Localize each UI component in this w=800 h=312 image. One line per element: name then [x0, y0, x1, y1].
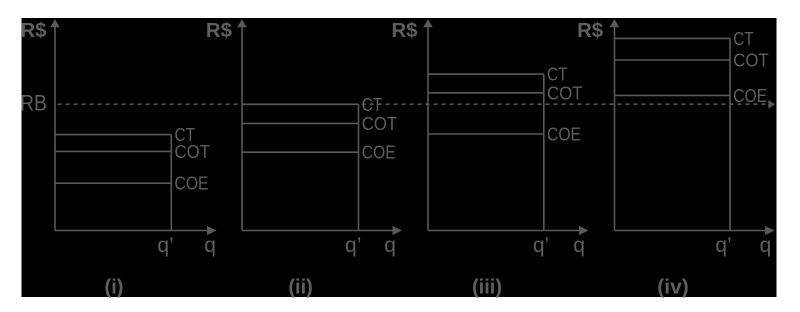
svg-text:(i): (i) — [105, 277, 124, 299]
svg-text:CT: CT — [362, 95, 383, 115]
svg-text:RB: RB — [20, 91, 47, 116]
svg-text:COE: COE — [547, 125, 581, 145]
svg-text:q’: q’ — [157, 234, 173, 257]
svg-text:q’: q’ — [715, 234, 731, 257]
svg-text:(iv): (iv) — [657, 277, 689, 299]
svg-text:COT: COT — [362, 114, 398, 134]
svg-text:q: q — [573, 234, 585, 257]
svg-text:R$: R$ — [577, 20, 603, 42]
svg-text:CT: CT — [733, 29, 754, 49]
svg-text:R$: R$ — [392, 20, 418, 42]
svg-text:COT: COT — [547, 83, 583, 103]
svg-text:(iii): (iii) — [472, 277, 502, 299]
svg-text:q’: q’ — [345, 234, 361, 257]
svg-text:COE: COE — [733, 86, 767, 106]
svg-text:COE: COE — [362, 143, 396, 163]
svg-text:COE: COE — [175, 174, 209, 194]
svg-text:q’: q’ — [533, 234, 549, 257]
svg-text:q: q — [384, 234, 396, 257]
svg-text:COT: COT — [175, 142, 211, 162]
svg-text:R$: R$ — [21, 20, 47, 42]
svg-text:R$: R$ — [206, 20, 232, 42]
svg-text:CT: CT — [547, 65, 568, 85]
svg-text:(ii): (ii) — [288, 277, 312, 299]
svg-text:q: q — [204, 234, 216, 257]
svg-text:q: q — [760, 234, 772, 257]
svg-text:COT: COT — [733, 51, 769, 71]
